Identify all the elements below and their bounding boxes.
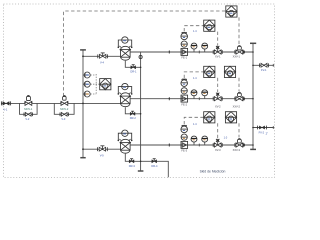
bypass loop 1 [20,103,38,114]
signal wires gauges to panel [90,74,99,95]
svg-text:2": 2" [266,132,268,136]
valve XXV-3 with actuator [235,139,245,148]
dp instrument PDI-3 [118,130,133,141]
gauge TI-3 [202,136,208,145]
gauge TI-2 [202,90,208,99]
gauge PI-1 [191,43,197,52]
drain valve DR-3 [129,160,134,163]
signal wire to XV-3 [217,123,219,139]
drain valve DR-4 [152,160,157,163]
header cap top [250,42,256,44]
gate valve V-4 [98,53,108,58]
valve XV-1 with solenoid star [213,46,222,54]
flow element FE-2 square [181,95,188,102]
signal wire FIT-1 to panel [184,26,204,32]
valve FV-2 outlet [258,126,267,130]
flow element FE-1 square [181,48,188,55]
svg-text:1.4: 1.4 [193,122,197,126]
vertical distribution pipe [82,50,84,158]
junction node train 2 header [252,98,254,100]
header cap bottom [250,148,256,150]
vent circle on drain header [139,55,142,58]
flange tick train 2 [168,97,170,100]
signal wire FIT-2 to panel [184,72,204,78]
dp instrument PDI-1 [118,37,133,48]
instrument PI-B circle [83,81,90,87]
drain pipe filter F2 [125,107,140,114]
filter F2 vessel [120,93,131,107]
valve XXV-2 with actuator [235,92,245,101]
pipe cap bottom [80,157,85,159]
instrument FIT-2 circle with seal [181,79,188,86]
bypass valve BV-2 [60,113,68,117]
wire outlet branch 2 [253,127,274,129]
gauge PI-2 [191,90,197,99]
signal wire to XXV-2 [238,78,240,91]
gauge TI-1 [202,43,208,52]
signal wire to XV-1 [217,32,219,46]
svg-text:V-2: V-2 [25,117,29,121]
valve XV-2 with solenoid star [213,93,222,101]
instrument FIT-3 circle with seal [181,125,188,132]
wire train 3 outlet pipe [130,144,253,146]
bypass loop 2 [54,103,74,114]
panel PLC-1a square [226,6,237,17]
wire outlet branch 1 [253,64,274,66]
node outlet 1 [252,65,254,67]
flange tick train 3 [168,143,170,146]
flow element FE-3 square [181,141,188,148]
svg-text:FE-2: FE-2 [181,102,187,106]
wire branch to filter F1 [83,55,121,57]
main inlet pipe [1,102,121,104]
node main junction [82,103,84,105]
instrument FIT-1 circle with seal [181,32,188,39]
svg-text:V-4: V-4 [100,60,104,64]
panel PLC-3a square [225,112,236,123]
tick outlet 1 [272,64,274,67]
node outlet 2 [252,127,254,129]
instrument FT-1 circle [181,41,187,47]
node drain 2 [140,113,142,115]
svg-text:1.4: 1.4 [193,29,197,33]
svg-text:DR-2: DR-2 [130,116,137,120]
wire branch to filter F3 [83,148,121,150]
panel PLC-1b square [204,20,215,31]
collection header pipe [252,43,254,149]
skid boundary / signal dashed line [64,11,226,96]
signal wire to XXV-3 [238,123,240,137]
flange tick2 train 2 [198,97,200,100]
panel PLC-3b square [204,112,215,123]
svg-text:XXV-3: XXV-3 [233,148,241,152]
svg-text:DR-1: DR-1 [130,70,137,74]
valve V-1 inlet [1,101,10,105]
drain pipe filter F1 [125,61,140,68]
svg-text:V-9: V-9 [100,153,104,157]
valve XXV-1 with actuator [235,46,245,55]
panel PLC-2a square [224,66,235,77]
drain header cap [138,170,144,172]
panel PLC-2b square [204,66,215,77]
svg-text:FV-1: FV-1 [261,68,267,72]
svg-text:XV-3: XV-3 [215,148,221,152]
signal wire to XXV-1 [238,17,240,44]
gate valve V-9 [98,146,108,151]
drain pipe filter F3 and outlet [125,154,168,178]
svg-text:1.0: 1.0 [224,136,228,140]
instrument FT-3 circle [181,134,187,140]
node branch F1 [82,55,84,57]
svg-text:V-1: V-1 [3,107,7,111]
svg-text:XXV-1: XXV-1 [233,55,241,59]
valve XV-3 with solenoid star [213,139,222,147]
drain header pipe [140,52,142,171]
flange tick train 1 [168,50,170,53]
node drain 1 [140,67,142,69]
motor valve MOV-1 [24,95,32,105]
drain valve DR-2 [130,112,135,115]
svg-text:1.4: 1.4 [193,76,197,80]
filter F1 vessel [120,46,131,60]
motor valve MOV-2 [60,96,68,106]
tick outlet 2 [272,126,274,129]
filter F3 vessel [120,139,131,153]
junction node train 1 header [252,51,254,53]
wire train 2 outlet pipe [130,98,253,100]
svg-text:V-3: V-3 [61,117,65,121]
valve FV-1 outlet [260,63,269,67]
outer dotted border [4,4,275,178]
pipe cap top [80,49,86,51]
drain valve DR-1 [131,66,136,69]
svg-text:MOV-1: MOV-1 [24,107,33,111]
gauge PI-3 [191,136,197,145]
instrument FT-2 circle [181,88,187,94]
svg-text:FV-2: FV-2 [259,131,265,135]
svg-text:FE-1: FE-1 [181,56,187,60]
panel PLC-0 square [100,79,111,90]
junction node train 3 header [252,144,254,146]
signal wire FIT-3 to panel [184,117,204,124]
signal wire to XV-2 [217,78,219,93]
svg-text:XXV-2: XXV-2 [233,104,241,108]
instrument PI-A circle [83,72,90,78]
svg-text:DR-4: DR-4 [151,164,158,168]
wire train 1 outlet pipe [130,51,253,53]
node drain 3 [140,161,142,163]
svg-text:FE-3: FE-3 [181,149,187,153]
node branch F3 [82,148,84,150]
svg-text:XV-2: XV-2 [215,104,221,108]
bypass valve BV-1 [24,113,32,117]
flange tick2 train 1 [198,51,200,54]
instrument PI-C circle [83,91,90,97]
dp instrument PDI-2 [118,83,133,94]
flange tick2 train 3 [198,144,200,147]
svg-text:Skid de Medición: Skid de Medición [200,169,226,173]
svg-text:DR-3: DR-3 [129,164,136,168]
svg-text:XV-1: XV-1 [215,55,221,59]
svg-text:MOV-2: MOV-2 [60,107,69,111]
